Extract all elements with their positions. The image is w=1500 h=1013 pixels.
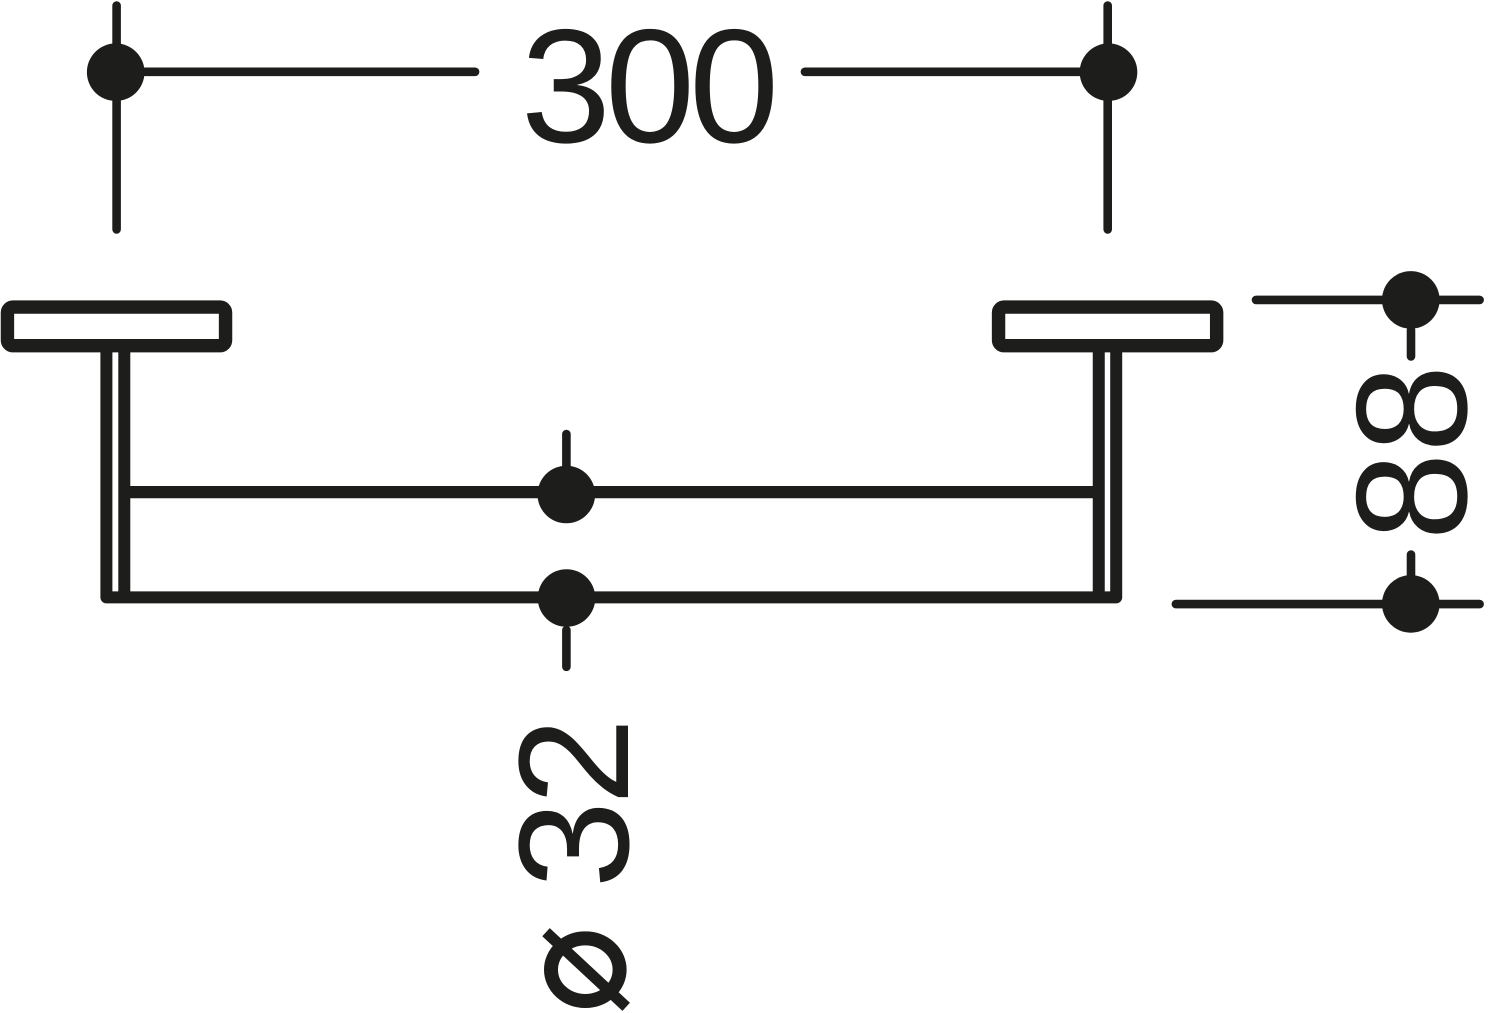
extension line right (300 dim) bbox=[1103, 6, 1112, 230]
leader stub below bar bottom dot bbox=[562, 630, 571, 667]
dimension dot 88 top bbox=[1382, 271, 1440, 329]
leader stub below 88 top dot bbox=[1407, 330, 1416, 356]
dimension line 300 left segment bbox=[117, 68, 476, 77]
leader stub above bar top dot bbox=[562, 434, 571, 470]
svg-text:88: 88 bbox=[1324, 365, 1500, 541]
leader stub above 88 bottom dot bbox=[1407, 555, 1416, 580]
diameter symbol ring bbox=[551, 938, 620, 1001]
outer contour: left post, bottom bar line, right post bbox=[106, 349, 1116, 597]
inner line right post bbox=[1093, 349, 1105, 594]
dot on bar top line bbox=[538, 466, 596, 524]
dimension line 88 top bbox=[1256, 296, 1480, 305]
inner line left post bbox=[118, 349, 130, 594]
wall plate right bbox=[999, 307, 1217, 346]
wall plate left bbox=[7, 307, 225, 346]
svg-text:32: 32 bbox=[487, 722, 662, 889]
extension line left (300 dim) bbox=[112, 6, 121, 230]
bar top line bbox=[124, 486, 1098, 498]
dimension dot top-left bbox=[87, 43, 145, 101]
dimension line 88 bottom bbox=[1176, 600, 1480, 609]
dot on bar bottom line bbox=[538, 569, 596, 627]
diameter symbol slash bbox=[546, 932, 626, 1007]
dimension line 300 right segment bbox=[805, 68, 1109, 77]
svg-text:300: 300 bbox=[521, 0, 773, 177]
dimension dot 88 bottom bbox=[1382, 575, 1440, 633]
dimension dot top-right bbox=[1080, 43, 1138, 101]
